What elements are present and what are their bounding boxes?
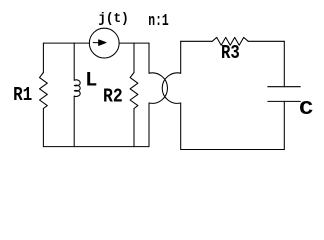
wire right vertical top bbox=[283, 41, 285, 86]
wire L branch top bbox=[73, 43, 75, 80]
wire top-right horizontal right segment bbox=[248, 40, 284, 42]
svg-text:n:1: n:1 bbox=[148, 12, 169, 31]
svg-text:R1: R1 bbox=[13, 85, 32, 107]
svg-text:C: C bbox=[299, 99, 313, 121]
svg-text:L: L bbox=[85, 69, 97, 92]
transformer primary winding arc bbox=[149, 73, 167, 104]
svg-text:j(t): j(t) bbox=[98, 12, 129, 28]
transformer primary vertical top bbox=[148, 43, 150, 73]
resistor R1 bbox=[40, 73, 48, 109]
transformer secondary vertical top bbox=[180, 41, 182, 73]
transformer secondary vertical bottom bbox=[180, 103, 182, 150]
wire R2 branch bottom bbox=[133, 109, 135, 147]
svg-text:R3: R3 bbox=[221, 43, 240, 65]
wire top-left horizontal bbox=[43, 42, 89, 44]
svg-text:R2: R2 bbox=[103, 86, 123, 108]
current source j(t) bbox=[89, 28, 119, 58]
wire top-middle horizontal bbox=[119, 42, 149, 44]
capacitor C bottom plate bbox=[268, 100, 301, 102]
wire bottom-left horizontal bbox=[43, 146, 149, 148]
wire top-right horizontal left segment bbox=[181, 40, 213, 42]
wire L branch bottom bbox=[73, 96, 75, 147]
transformer primary vertical bottom bbox=[148, 103, 150, 147]
wire R2 branch top bbox=[133, 43, 135, 72]
capacitor C top plate bbox=[268, 86, 301, 88]
resistor R2 bbox=[130, 73, 138, 109]
resistor R3 bbox=[212, 37, 248, 45]
wire right vertical bottom bbox=[283, 101, 285, 149]
wire left vertical bottom bbox=[42, 109, 44, 147]
transformer secondary winding arc bbox=[162, 73, 180, 104]
inductor L bbox=[74, 80, 80, 97]
wire left vertical top bbox=[42, 43, 44, 72]
wire bottom-right horizontal bbox=[181, 149, 285, 151]
